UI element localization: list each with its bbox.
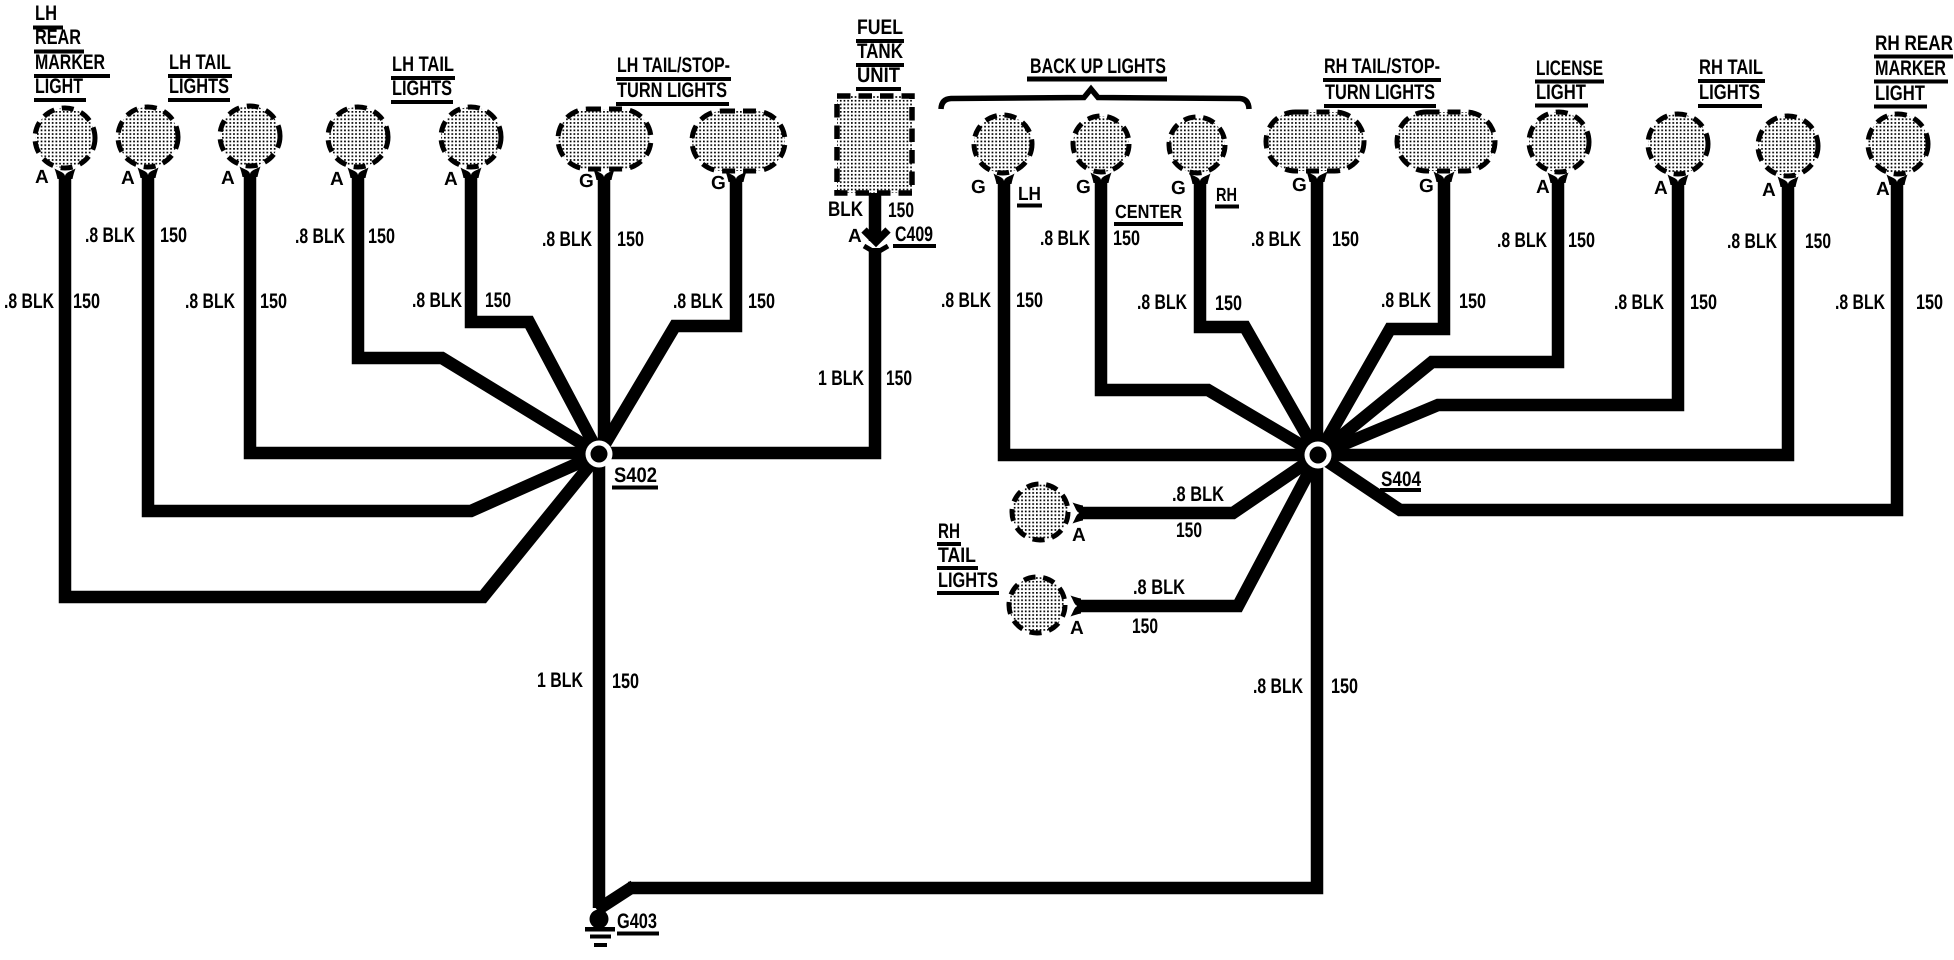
- light RH tail/stop-turn G6 (oval): [1266, 112, 1364, 171]
- light LH tail A3: [220, 106, 280, 166]
- svg-text:C409: C409: [895, 223, 933, 246]
- connector pin A5: [461, 168, 482, 179]
- svg-text:LH: LH: [35, 2, 57, 25]
- svg-text:A: A: [1070, 618, 1084, 639]
- light LH rear marker: [35, 108, 95, 168]
- light LH tail/stop-turn G2 (oval): [692, 111, 785, 171]
- svg-text:1 BLK: 1 BLK: [537, 669, 583, 692]
- svg-text:150: 150: [1215, 292, 1242, 315]
- wire .8 BLK 150 RH tail light A8 to S404: [1318, 184, 1788, 455]
- connector pin G back-up RH: [1190, 174, 1211, 185]
- light RH tail M1: [1012, 484, 1068, 540]
- svg-text:150: 150: [1690, 291, 1717, 314]
- light RH tail M2: [1009, 577, 1065, 633]
- svg-text:A: A: [1072, 525, 1086, 546]
- svg-text:UNIT: UNIT: [857, 64, 900, 87]
- svg-text:A: A: [1536, 177, 1550, 198]
- splice S404: [1305, 442, 1422, 492]
- svg-text:.8 BLK: .8 BLK: [1137, 291, 1187, 314]
- light LH tail A2: [118, 107, 178, 167]
- svg-text:TAIL: TAIL: [938, 544, 976, 567]
- wire .8 BLK 150 LH rear marker to S402: [65, 176, 599, 597]
- svg-text:MARKER: MARKER: [1875, 57, 1946, 80]
- svg-text:A: A: [330, 169, 344, 190]
- fuel tank unit box: [837, 96, 912, 193]
- wire .8 BLK 150 LH tail light A3 to S402: [250, 174, 599, 453]
- svg-text:150: 150: [1332, 228, 1359, 251]
- svg-text:LH: LH: [1018, 184, 1041, 205]
- splice S402: [586, 441, 659, 488]
- connector pin A at M1 (points right): [1073, 503, 1084, 524]
- svg-text:LICENSE: LICENSE: [1536, 57, 1603, 80]
- svg-text:S402: S402: [614, 464, 657, 487]
- svg-text:.8 BLK: .8 BLK: [941, 289, 991, 312]
- connector pin A at M2 (points right): [1071, 596, 1082, 617]
- svg-text:.8 BLK: .8 BLK: [4, 290, 54, 313]
- wire .8 BLK 150 RH tail light A7 to S404: [1318, 182, 1678, 455]
- light RH tail/stop-turn G7 (oval): [1397, 112, 1495, 171]
- svg-text:A: A: [221, 168, 235, 189]
- wire .8 BLK 150 back up CENTER to S404: [1101, 180, 1318, 455]
- svg-text:150: 150: [1331, 675, 1358, 698]
- CONNECTOR V COLLARS: [55, 167, 1908, 617]
- svg-text:LH TAIL/STOP-: LH TAIL/STOP-: [617, 54, 730, 77]
- svg-text:LIGHTS: LIGHTS: [1699, 81, 1760, 104]
- svg-text:150: 150: [1916, 291, 1943, 314]
- svg-text:TANK: TANK: [857, 40, 903, 63]
- svg-text:A: A: [848, 226, 862, 247]
- svg-text:150: 150: [617, 228, 644, 251]
- wire .8 BLK 150 LH tail light A5 to S402: [471, 175, 599, 454]
- svg-text:S404: S404: [1381, 468, 1421, 491]
- svg-text:.8 BLK: .8 BLK: [1040, 227, 1090, 250]
- light back up RH: [1169, 117, 1225, 173]
- svg-text:.8 BLK: .8 BLK: [1172, 483, 1224, 506]
- svg-text:RH REAR: RH REAR: [1875, 32, 1953, 55]
- svg-text:150: 150: [1568, 229, 1595, 252]
- light RH tail A8: [1758, 116, 1818, 176]
- connector pin A at LH rear marker: [55, 169, 76, 180]
- svg-text:REAR: REAR: [35, 26, 81, 49]
- svg-text:.8 BLK: .8 BLK: [673, 290, 723, 313]
- svg-text:LIGHT: LIGHT: [1875, 82, 1925, 105]
- svg-text:A: A: [444, 169, 458, 190]
- label RH (back up): [1215, 185, 1239, 207]
- svg-text:.8 BLK: .8 BLK: [1497, 229, 1547, 252]
- connector pin G back-up LH: [994, 174, 1015, 185]
- svg-text:150: 150: [612, 670, 639, 693]
- title RH REAR MARKER LIGHT: [1874, 32, 1953, 107]
- connector C409 symbol: [864, 223, 936, 253]
- svg-text:A: A: [1654, 178, 1668, 199]
- wire .8 BLK 150 RH rear marker to S404: [1318, 182, 1897, 510]
- svg-text:G: G: [1076, 177, 1091, 198]
- svg-text:.8 BLK: .8 BLK: [1614, 291, 1664, 314]
- svg-text:.8 BLK: .8 BLK: [295, 225, 345, 248]
- svg-text:.8 BLK: .8 BLK: [1727, 230, 1777, 253]
- svg-text:150: 150: [160, 224, 187, 247]
- svg-text:G: G: [1171, 178, 1186, 199]
- svg-text:150: 150: [260, 290, 287, 313]
- title RH TAIL LIGHTS (middle): [937, 520, 999, 593]
- svg-text:150: 150: [1113, 227, 1140, 250]
- svg-text:150: 150: [1459, 290, 1486, 313]
- svg-text:.8 BLK: .8 BLK: [185, 290, 235, 313]
- wire .8 BLK 150 license light to S404: [1318, 180, 1558, 455]
- bracket over back up lights: [941, 89, 1249, 109]
- PIN LETTERS: [35, 167, 1890, 639]
- connector pin G2: [726, 172, 747, 183]
- light RH tail A7: [1648, 114, 1708, 174]
- light back up CENTER: [1073, 116, 1129, 172]
- svg-text:150: 150: [73, 290, 100, 313]
- svg-text:A: A: [1762, 180, 1776, 201]
- svg-text:1 BLK: 1 BLK: [818, 367, 864, 390]
- svg-text:.8 BLK: .8 BLK: [85, 224, 135, 247]
- wire .8 BLK 150 RH tail light M1 to S404: [1079, 455, 1318, 513]
- title LH REAR MARKER LIGHT: [33, 2, 110, 100]
- title RH TAIL/STOP-TURN LIGHTS: [1323, 55, 1441, 106]
- connector pin G7: [1434, 172, 1455, 183]
- title RH TAIL LIGHTS (top): [1698, 56, 1765, 106]
- wire .8 BLK 150 ground bus G403 to S404: [628, 455, 1317, 888]
- connector pin A8: [1778, 177, 1799, 188]
- ground G403: [585, 910, 659, 948]
- connector pin A9: [1887, 175, 1908, 186]
- light LH tail A4: [328, 107, 388, 167]
- title LH TAIL/STOP-TURN LIGHTS: [616, 54, 731, 104]
- svg-text:.8 BLK: .8 BLK: [1253, 675, 1303, 698]
- svg-text:BACK UP LIGHTS: BACK UP LIGHTS: [1030, 55, 1166, 78]
- title LH TAIL LIGHTS (first): [168, 51, 232, 100]
- wire .8 BLK 150 LH tail/stop-turn G1 to S402: [598, 177, 611, 454]
- title BACK UP LIGHTS: [1027, 55, 1167, 79]
- light license: [1529, 112, 1589, 172]
- light LH tail A5: [441, 107, 501, 167]
- label LH (back up): [1017, 184, 1042, 206]
- svg-text:LIGHT: LIGHT: [35, 75, 83, 98]
- title LH TAIL LIGHTS (second): [391, 53, 455, 102]
- svg-text:A: A: [121, 168, 135, 189]
- svg-text:150: 150: [1176, 519, 1202, 542]
- wire junction diagonal near G403: [597, 886, 634, 910]
- svg-text:RH TAIL/STOP-: RH TAIL/STOP-: [1324, 55, 1440, 78]
- svg-text:150: 150: [485, 289, 511, 312]
- wire .8 BLK 150 RH tail/stop-turn G6 to S404: [1311, 179, 1324, 455]
- wire .8 BLK 150 back up LH to S404: [1004, 181, 1318, 455]
- svg-text:150: 150: [748, 290, 775, 313]
- connector pin A4: [348, 168, 369, 179]
- svg-text:150: 150: [888, 199, 914, 222]
- svg-text:RH: RH: [938, 520, 960, 543]
- svg-text:LIGHTS: LIGHTS: [169, 75, 229, 98]
- svg-text:RH: RH: [1216, 185, 1237, 206]
- connector pin G6: [1307, 172, 1328, 183]
- wire 1 BLK 150 S402 down to G403: [593, 454, 606, 908]
- svg-text:G: G: [711, 173, 726, 194]
- svg-text:LIGHTS: LIGHTS: [938, 569, 998, 592]
- svg-text:TURN LIGHTS: TURN LIGHTS: [1325, 81, 1435, 104]
- svg-text:A: A: [35, 167, 49, 188]
- svg-text:G: G: [1292, 175, 1307, 196]
- LIGHTS (dashed stippled circles): [35, 96, 1928, 633]
- connector pin A2: [138, 168, 159, 179]
- wire .8 BLK 150 RH tail/stop-turn G7 to S404: [1318, 179, 1444, 455]
- svg-text:TURN LIGHTS: TURN LIGHTS: [617, 79, 727, 102]
- svg-text:150: 150: [368, 225, 395, 248]
- svg-text:G: G: [1419, 176, 1434, 197]
- title FUEL TANK UNIT: [856, 16, 904, 89]
- svg-text:150: 150: [1805, 230, 1831, 253]
- svg-text:G403: G403: [617, 910, 657, 933]
- svg-text:LIGHTS: LIGHTS: [392, 77, 452, 100]
- label CENTER (back up): [1114, 202, 1183, 224]
- svg-text:FUEL: FUEL: [857, 16, 903, 39]
- wire .8 BLK 150 RH tail light M2 to S404: [1077, 455, 1318, 606]
- svg-text:A: A: [1876, 179, 1890, 200]
- wire .8 BLK 150 back up RH to S404: [1200, 181, 1318, 455]
- connector pin A license: [1548, 173, 1569, 184]
- light LH tail/stop-turn G1 (oval): [558, 109, 651, 169]
- svg-text:RH TAIL: RH TAIL: [1699, 56, 1763, 79]
- connector pin G back-up CENTER: [1091, 173, 1112, 184]
- wire .8 BLK 150 LH tail/stop-turn G2 to S402: [599, 179, 736, 454]
- wire 1 BLK 150 fuel tank unit via C409 to S402: [599, 193, 875, 453]
- svg-text:MARKER: MARKER: [35, 51, 105, 74]
- svg-text:150: 150: [886, 367, 912, 390]
- svg-text:LH TAIL: LH TAIL: [392, 53, 454, 76]
- svg-text:BLK: BLK: [828, 198, 863, 221]
- light back up LH: [974, 115, 1032, 173]
- svg-text:.8 BLK: .8 BLK: [1133, 576, 1185, 599]
- svg-text:150: 150: [1132, 615, 1158, 638]
- svg-text:G: G: [971, 177, 986, 198]
- svg-text:.8 BLK: .8 BLK: [1251, 228, 1301, 251]
- svg-text:.8 BLK: .8 BLK: [412, 289, 462, 312]
- svg-text:.8 BLK: .8 BLK: [1381, 289, 1431, 312]
- svg-text:.8 BLK: .8 BLK: [542, 228, 592, 251]
- svg-text:LH TAIL: LH TAIL: [169, 51, 231, 74]
- WIRE VALUE LABELS: [4, 198, 1943, 698]
- svg-text:.8 BLK: .8 BLK: [1835, 291, 1885, 314]
- svg-text:150: 150: [1016, 289, 1043, 312]
- wire .8 BLK 150 LH tail light A4 to S402: [358, 175, 599, 454]
- wire .8 BLK 150 LH tail light A2 to S402: [148, 175, 599, 511]
- connector pin G1: [594, 170, 615, 181]
- connector pin A7: [1668, 175, 1689, 186]
- title LICENSE LIGHT: [1535, 57, 1604, 106]
- svg-text:LIGHT: LIGHT: [1536, 81, 1586, 104]
- light RH rear marker: [1868, 114, 1928, 174]
- svg-text:CENTER: CENTER: [1115, 202, 1182, 223]
- svg-text:G: G: [579, 171, 594, 192]
- connector pin A3: [240, 167, 261, 178]
